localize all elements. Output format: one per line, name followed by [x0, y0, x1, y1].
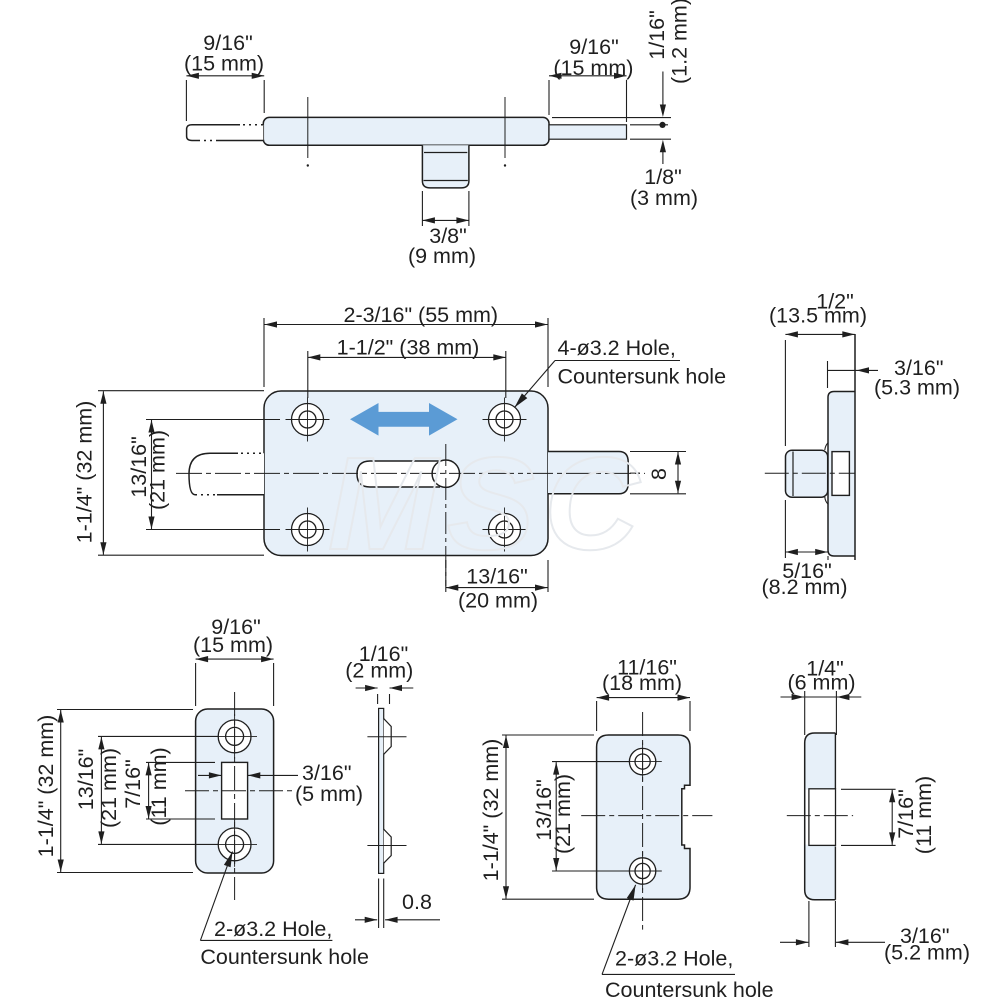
svg-text:2-ø3.2 Hole,: 2-ø3.2 Hole,: [214, 917, 332, 941]
strike side profile: hole centerlines: [367, 737, 406, 846]
top view: knob (bottom projection): [422, 145, 469, 188]
keeper plate: body with notch: [597, 735, 690, 899]
dimension 13/16in 21mm (front hole spacing): [127, 420, 280, 530]
svg-text:(3 mm): (3 mm): [630, 186, 698, 210]
dimension 7/16in 11mm (strike slot height): [121, 747, 215, 825]
dimension 2-3/16in 55mm (plate width): [264, 303, 548, 387]
strike side profile: countersink bump bottom: [384, 829, 392, 863]
dimension 3/16in 5.3mm (plate thickness): [828, 356, 961, 400]
front view: countersunk hole bottom-right: [483, 508, 527, 552]
dimension 1/2in 13.5mm (side overall): [769, 290, 867, 447]
svg-text:2-3/16" (55 mm): 2-3/16" (55 mm): [343, 303, 498, 327]
svg-text:1-1/4" (32 mm): 1-1/4" (32 mm): [479, 739, 503, 882]
front view: bolt pin (right, blue rounded end): [548, 452, 628, 494]
svg-text:(5.3 mm): (5.3 mm): [874, 376, 960, 400]
strike plate: vertical centerline: [234, 692, 236, 900]
svg-text:(15 mm): (15 mm): [193, 633, 273, 657]
svg-text:(21 mm): (21 mm): [146, 430, 170, 510]
svg-text:1-1/2" (38 mm): 1-1/2" (38 mm): [337, 336, 480, 360]
svg-text:(6 mm): (6 mm): [787, 671, 855, 695]
side view: plate right face line: [854, 334, 856, 560]
keeper plate: vertical centerline: [642, 712, 644, 930]
front view: knob vertical centerline: [445, 444, 447, 586]
front view: retracted rod (left, white with break lines): [189, 453, 264, 495]
front view: countersunk hole bottom-left: [286, 508, 330, 552]
dimension 9/16in 15mm (strike width): [193, 615, 274, 706]
dimension 9/16in 15mm (top left): [184, 31, 264, 121]
dimension 1-1/4in 32mm (keeper height): [479, 735, 594, 899]
side view: knob: [786, 450, 828, 497]
svg-text:(2 mm): (2 mm): [345, 659, 413, 683]
svg-text:1/16": 1/16": [645, 10, 669, 59]
top view: hole centerline left: [307, 97, 309, 167]
dimension dia 8 (pin): [630, 452, 686, 494]
front view: latch plate body: [264, 391, 548, 556]
strike plate: body: [196, 709, 274, 873]
dimension 9/16in 15mm (top right): [549, 35, 633, 122]
strike side profile: plate: [379, 708, 384, 873]
dimension 11/16in 18mm (keeper width): [597, 656, 690, 732]
dimension 13/16in 21mm (keeper hole spacing): [532, 762, 629, 871]
top view: bolt slide bar (top view body): [263, 117, 549, 145]
svg-text:(11 mm): (11 mm): [147, 747, 171, 825]
keeper plate: countersunk hole top: [623, 742, 661, 780]
dimension 0.8 (strike base thickness): [355, 879, 440, 929]
front view: countersunk hole top-left: [286, 398, 330, 442]
keeper side view: notch: [806, 789, 836, 846]
keeper plate: horizontal centerline: [581, 815, 712, 817]
svg-text:Countersunk hole: Countersunk hole: [605, 978, 774, 1000]
svg-text:(5.2 mm): (5.2 mm): [884, 941, 970, 965]
strike plate: slot: [222, 762, 248, 819]
dimension 1-1/2in 38mm (hole spacing): [308, 336, 506, 399]
dimension 1-1/4in 32mm (strike height): [34, 710, 193, 873]
top view: protruding bolt pin (right): [549, 125, 627, 139]
label 2-dia3.2 hole countersunk (keeper): [602, 885, 774, 1000]
svg-text:(15 mm): (15 mm): [184, 52, 264, 76]
svg-text:(5 mm): (5 mm): [295, 782, 363, 806]
svg-text:4-ø3.2 Hole,: 4-ø3.2 Hole,: [558, 336, 676, 360]
keeper side view: horizontal centerline: [787, 815, 853, 817]
dimension 13/16in 20mm (knob to edge): [446, 560, 548, 613]
dimension 3/8in 9mm (knob width): [408, 191, 476, 268]
dimension 3/16in 5mm (strike slot width): [198, 761, 363, 806]
svg-text:(11 mm): (11 mm): [912, 776, 936, 854]
svg-text:(1.2 mm): (1.2 mm): [668, 0, 692, 84]
front view: horizontal centerline: [176, 472, 645, 474]
dimension 13/16in 21mm (strike hole spacing): [74, 736, 218, 844]
strike plate: countersunk hole top: [212, 714, 257, 759]
side view: plate body: [828, 392, 855, 557]
svg-text:1-1/4" (32 mm): 1-1/4" (32 mm): [34, 715, 58, 858]
front view: knob circle: [432, 460, 459, 487]
svg-text:(15 mm): (15 mm): [553, 56, 633, 80]
dimension 1/16in 2mm (strike thickness): [345, 642, 413, 704]
svg-text:(21 mm): (21 mm): [551, 774, 575, 854]
svg-text:2-ø3.2 Hole,: 2-ø3.2 Hole,: [615, 947, 733, 971]
MSC watermark: [328, 430, 648, 577]
strike plate: countersunk hole bottom: [212, 822, 257, 867]
svg-text:(8.2 mm): (8.2 mm): [762, 575, 848, 599]
top view: retracted bolt rod (left, with break lines): [187, 125, 264, 141]
svg-text:13/16": 13/16": [74, 749, 98, 810]
svg-text:8: 8: [647, 468, 671, 480]
svg-text:Countersunk hole: Countersunk hole: [200, 945, 369, 969]
svg-text:7/16": 7/16": [121, 759, 145, 808]
svg-text:(20 mm): (20 mm): [458, 589, 538, 613]
keeper plate: countersunk hole bottom: [623, 852, 661, 890]
keeper side view: body: [805, 733, 836, 900]
front view: countersunk hole top-right: [483, 398, 527, 442]
dimension 1/16in 1.2mm (rod offset): [552, 0, 692, 139]
dimension 7/16in 11mm (keeper notch height): [841, 776, 936, 854]
side view: knob fillets: [825, 443, 829, 505]
dimension 5/16in 8.2mm (knob depth): [762, 500, 848, 599]
front view: blue slide direction arrow: [350, 403, 458, 436]
side view: slot through plate: [832, 452, 849, 496]
svg-text:1-1/4" (32 mm): 1-1/4" (32 mm): [73, 401, 97, 544]
svg-text:Countersunk hole: Countersunk hole: [558, 365, 727, 389]
dimension 1-1/4in 32mm (front view height): [73, 391, 265, 556]
top view: hole centerline right: [504, 97, 506, 167]
dimension 1/4in 6mm (keeper overall thickness): [781, 657, 862, 736]
front view: slide slot: [357, 461, 440, 487]
svg-text:(18 mm): (18 mm): [602, 671, 682, 695]
svg-text:0.8: 0.8: [402, 890, 432, 914]
strike plate: horizontal centerline: [185, 790, 296, 792]
dimension 1/8in 3mm (rod thickness): [630, 140, 698, 210]
svg-text:(13.5 mm): (13.5 mm): [769, 304, 867, 328]
svg-text:MSC: MSC: [328, 430, 648, 577]
side view: horizontal centerline: [765, 472, 855, 474]
label 2-dia3.2 hole countersunk (strike): [200, 852, 369, 970]
svg-text:(21 mm): (21 mm): [97, 748, 121, 828]
strike side profile: countersink bump top: [384, 719, 392, 755]
dimension 3/16in 5.2mm (keeper base thickness): [780, 901, 970, 965]
label 4-dia3.2 hole countersunk: [515, 336, 727, 408]
svg-text:(9 mm): (9 mm): [408, 244, 476, 268]
